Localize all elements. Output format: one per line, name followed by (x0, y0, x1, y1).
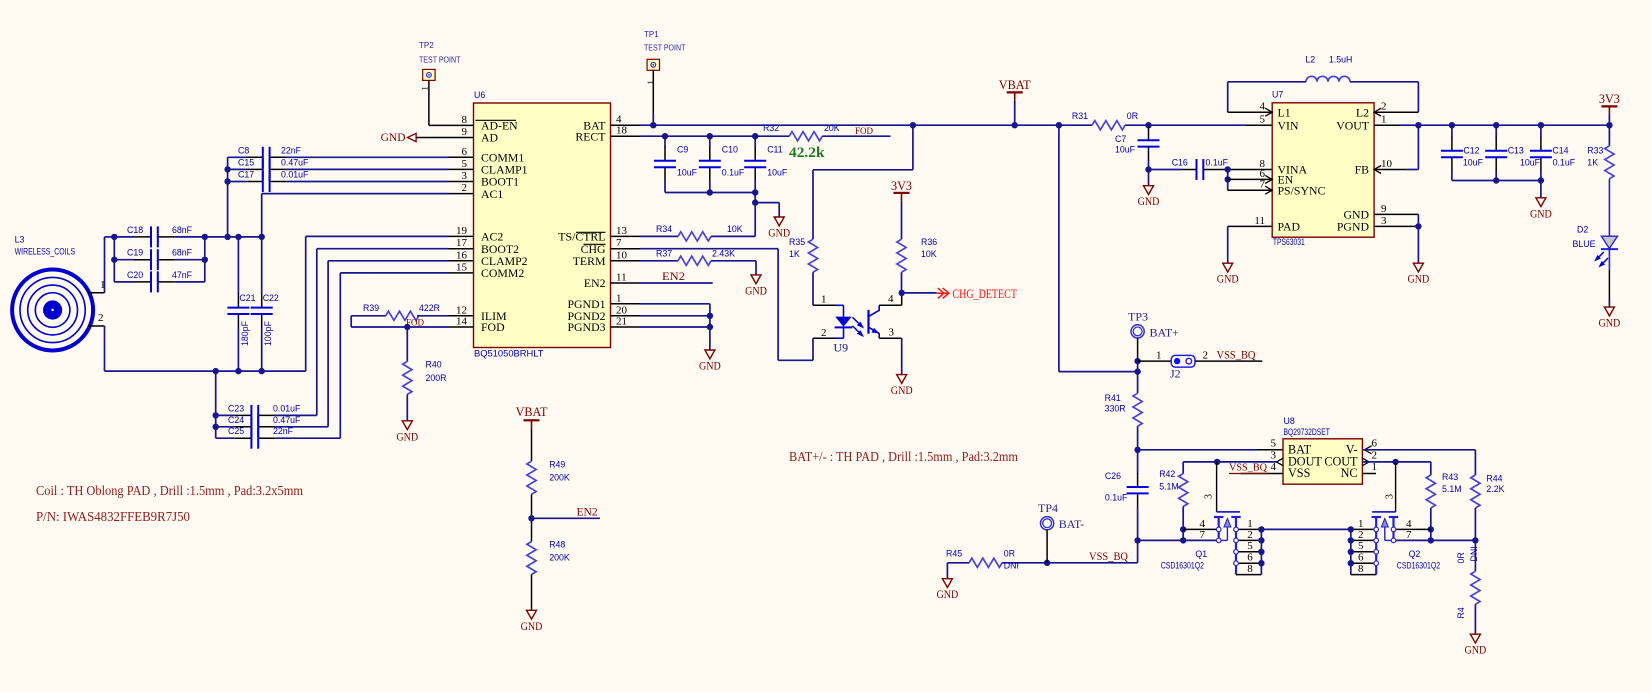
svg-text:BQ29732DSET: BQ29732DSET (1284, 427, 1331, 437)
svg-text:TEST POINT: TEST POINT (644, 44, 685, 53)
svg-text:GND: GND (1217, 272, 1239, 286)
svg-text:U8: U8 (1284, 416, 1295, 426)
svg-text:1.5uH: 1.5uH (1329, 55, 1352, 65)
svg-text:R31: R31 (1072, 111, 1088, 121)
svg-text:200R: 200R (426, 373, 447, 383)
svg-text:8: 8 (1358, 563, 1364, 575)
svg-text:20: 20 (616, 304, 628, 316)
svg-text:180pF: 180pF (240, 320, 250, 346)
svg-text:GND: GND (521, 619, 543, 633)
svg-text:U7: U7 (1272, 90, 1283, 100)
svg-text:R34: R34 (656, 224, 672, 234)
svg-text:21: 21 (616, 316, 627, 328)
svg-text:C11: C11 (767, 145, 783, 155)
svg-text:C14: C14 (1552, 145, 1568, 155)
svg-text:WIRELESS_COILS: WIRELESS_COILS (15, 247, 76, 257)
svg-text:Coil : TH Oblong PAD , Drill :: Coil : TH Oblong PAD , Drill :1.5mm , Pa… (36, 483, 303, 498)
svg-text:TP1: TP1 (644, 30, 659, 39)
svg-text:5: 5 (1358, 540, 1364, 552)
svg-text:R32: R32 (763, 123, 779, 133)
svg-text:RECT: RECT (575, 129, 606, 143)
svg-text:1K: 1K (789, 249, 800, 259)
svg-text:FOD: FOD (855, 126, 874, 136)
svg-text:GND: GND (768, 226, 790, 240)
svg-text:12: 12 (456, 304, 467, 316)
svg-text:200K: 200K (549, 473, 570, 483)
svg-text:DNI: DNI (1469, 546, 1479, 561)
svg-text:GND: GND (381, 132, 406, 144)
svg-text:9: 9 (1381, 203, 1387, 215)
svg-text:10uF: 10uF (677, 168, 698, 178)
svg-text:R39: R39 (363, 303, 379, 313)
svg-text:47nF: 47nF (172, 270, 193, 280)
svg-text:C16: C16 (1172, 158, 1188, 168)
svg-text:TERM: TERM (573, 254, 606, 268)
svg-text:7: 7 (1260, 179, 1266, 191)
svg-text:0R: 0R (1004, 548, 1015, 558)
svg-text:422R: 422R (419, 303, 440, 313)
svg-text:5.1M: 5.1M (1159, 482, 1179, 492)
svg-text:330R: 330R (1105, 404, 1126, 414)
svg-text:GND: GND (1408, 272, 1430, 286)
svg-text:R33: R33 (1587, 146, 1603, 156)
svg-text:L2: L2 (1305, 55, 1315, 65)
svg-text:14: 14 (456, 316, 468, 328)
svg-text:C26: C26 (1105, 471, 1121, 481)
svg-text:R48: R48 (549, 540, 565, 550)
svg-text:U9: U9 (834, 341, 849, 355)
svg-text:GND: GND (699, 359, 721, 373)
svg-text:6: 6 (1358, 552, 1364, 564)
svg-text:EN2: EN2 (662, 271, 685, 283)
svg-text:C17: C17 (238, 170, 254, 180)
svg-text:FOD: FOD (406, 317, 425, 327)
svg-text:Q2: Q2 (1409, 549, 1421, 559)
svg-text:R37: R37 (656, 248, 672, 258)
svg-text:C21: C21 (239, 293, 255, 303)
svg-text:BAT+: BAT+ (1150, 326, 1180, 340)
svg-text:3: 3 (1204, 494, 1215, 499)
svg-text:BLUE: BLUE (1573, 239, 1596, 249)
svg-text:6: 6 (1372, 437, 1378, 449)
svg-text:0.1uF: 0.1uF (722, 168, 745, 178)
svg-text:VSS_BQ: VSS_BQ (1229, 462, 1267, 474)
svg-text:3: 3 (1271, 449, 1277, 461)
svg-text:NC: NC (1341, 466, 1358, 480)
svg-text:C22: C22 (263, 293, 279, 303)
svg-text:10uF: 10uF (1520, 157, 1541, 167)
svg-text:5: 5 (1271, 437, 1277, 449)
svg-text:2: 2 (821, 327, 827, 339)
svg-text:2: 2 (1372, 449, 1378, 461)
svg-text:22nF: 22nF (273, 426, 294, 436)
svg-text:TP3: TP3 (1128, 310, 1148, 324)
svg-text:19: 19 (456, 225, 468, 237)
svg-text:GND: GND (1465, 643, 1487, 657)
svg-text:R36: R36 (921, 237, 937, 247)
svg-text:C7: C7 (1115, 134, 1126, 144)
svg-text:C19: C19 (127, 248, 143, 258)
svg-text:DNI: DNI (1004, 561, 1019, 571)
svg-text:68nF: 68nF (172, 248, 193, 258)
svg-text:2: 2 (462, 182, 468, 194)
svg-text:100pF: 100pF (263, 320, 273, 346)
svg-text:8: 8 (462, 114, 468, 126)
svg-text:10uF: 10uF (1463, 157, 1484, 167)
svg-text:C12: C12 (1463, 145, 1479, 155)
svg-text:P/N: IWAS4832FFEB9R7J50: P/N: IWAS4832FFEB9R7J50 (36, 509, 190, 524)
svg-text:2.2K: 2.2K (1486, 484, 1504, 494)
svg-text:R35: R35 (789, 237, 805, 247)
svg-text:3V3: 3V3 (891, 179, 912, 193)
svg-text:VSS_BQ: VSS_BQ (1217, 349, 1257, 361)
svg-text:3: 3 (1381, 215, 1387, 227)
svg-text:0.1uF: 0.1uF (1553, 157, 1576, 167)
svg-text:3: 3 (1385, 494, 1396, 499)
svg-text:VSS_BQ: VSS_BQ (1089, 551, 1129, 563)
svg-text:TP2: TP2 (419, 41, 434, 50)
svg-text:200K: 200K (549, 553, 570, 563)
svg-text:R4: R4 (1456, 607, 1466, 618)
svg-text:GND: GND (1138, 194, 1160, 208)
svg-text:5: 5 (462, 158, 468, 170)
svg-text:FOD: FOD (481, 320, 505, 334)
svg-text:22nF: 22nF (281, 145, 302, 155)
svg-text:10: 10 (1381, 158, 1393, 170)
svg-text:3V3: 3V3 (1599, 92, 1620, 106)
svg-text:8: 8 (1247, 563, 1253, 575)
svg-text:11: 11 (1254, 215, 1265, 227)
svg-text:R43: R43 (1442, 472, 1458, 482)
svg-text:2: 2 (98, 312, 104, 324)
svg-text:7: 7 (1200, 529, 1206, 541)
svg-text:4: 4 (1260, 101, 1266, 113)
svg-text:1K: 1K (1587, 157, 1598, 167)
svg-text:4: 4 (1271, 461, 1277, 473)
svg-text:U6: U6 (474, 90, 485, 100)
svg-text:R41: R41 (1105, 393, 1121, 403)
svg-text:C20: C20 (127, 270, 143, 280)
svg-text:7: 7 (1406, 529, 1412, 541)
svg-text:GND: GND (937, 587, 959, 601)
svg-text:PAD: PAD (1278, 220, 1301, 234)
svg-text:0.47uF: 0.47uF (273, 415, 301, 425)
svg-text:17: 17 (456, 237, 468, 249)
svg-text:2: 2 (1381, 101, 1387, 113)
svg-text:42.2k: 42.2k (789, 145, 825, 161)
svg-text:C24: C24 (228, 415, 244, 425)
svg-text:COMM2: COMM2 (481, 266, 524, 280)
svg-text:16: 16 (456, 249, 468, 261)
svg-text:TEST POINT: TEST POINT (419, 56, 460, 65)
svg-text:D2: D2 (1577, 225, 1588, 235)
svg-text:6: 6 (462, 146, 468, 158)
svg-text:3: 3 (889, 327, 895, 339)
svg-text:2.43K: 2.43K (712, 248, 735, 258)
svg-text:3: 3 (462, 170, 468, 182)
svg-text:0R: 0R (1127, 111, 1138, 121)
svg-text:BQ51050BRHLT: BQ51050BRHLT (474, 349, 544, 359)
svg-text:L3: L3 (15, 235, 25, 245)
svg-text:PS/SYNC: PS/SYNC (1278, 183, 1326, 197)
svg-text:0.1uF: 0.1uF (1206, 158, 1229, 168)
svg-text:0R: 0R (1456, 552, 1466, 563)
svg-text:68nF: 68nF (172, 225, 193, 235)
svg-text:C9: C9 (677, 145, 688, 155)
svg-text:2: 2 (1203, 349, 1209, 361)
svg-text:9: 9 (462, 126, 468, 138)
svg-text:CHG_DETECT: CHG_DETECT (952, 287, 1017, 301)
svg-text:VOUT: VOUT (1336, 118, 1370, 132)
svg-text:GND: GND (891, 383, 913, 397)
svg-text:1: 1 (1381, 114, 1387, 126)
svg-text:VBAT: VBAT (516, 405, 548, 419)
svg-text:1: 1 (821, 294, 827, 306)
svg-text:AD: AD (481, 131, 499, 145)
svg-text:10K: 10K (727, 224, 743, 234)
svg-text:J2: J2 (1170, 367, 1181, 381)
svg-text:C8: C8 (238, 145, 249, 155)
svg-text:20K: 20K (824, 123, 840, 133)
svg-text:2: 2 (1247, 529, 1253, 541)
svg-text:0.1uF: 0.1uF (1105, 493, 1128, 503)
svg-text:VBAT: VBAT (999, 78, 1031, 92)
svg-text:C23: C23 (228, 403, 244, 413)
svg-text:VIN: VIN (1278, 118, 1299, 132)
svg-text:GND: GND (396, 429, 418, 443)
svg-text:0.01uF: 0.01uF (281, 170, 309, 180)
svg-text:10: 10 (616, 249, 628, 261)
svg-text:5: 5 (1247, 540, 1253, 552)
svg-text:15: 15 (456, 261, 468, 273)
svg-text:PGND: PGND (1337, 220, 1370, 234)
svg-text:R45: R45 (946, 548, 962, 558)
svg-text:10uF: 10uF (767, 168, 788, 178)
svg-text:1: 1 (616, 292, 622, 304)
svg-text:11: 11 (616, 272, 627, 284)
svg-text:R44: R44 (1486, 473, 1502, 483)
svg-text:R49: R49 (549, 460, 565, 470)
svg-text:1: 1 (1372, 461, 1378, 473)
svg-text:1: 1 (419, 86, 429, 90)
svg-text:CSD16301Q2: CSD16301Q2 (1397, 561, 1440, 571)
svg-text:EN2: EN2 (584, 276, 606, 290)
svg-text:C10: C10 (722, 145, 738, 155)
svg-text:R40: R40 (426, 360, 442, 370)
svg-text:PGND3: PGND3 (567, 320, 605, 334)
svg-text:7: 7 (616, 237, 622, 249)
svg-text:5: 5 (1260, 114, 1266, 126)
svg-text:L2: L2 (1356, 105, 1369, 119)
svg-text:18: 18 (616, 125, 628, 137)
svg-text:0.01uF: 0.01uF (273, 403, 301, 413)
svg-text:C18: C18 (127, 225, 143, 235)
svg-text:2: 2 (1358, 529, 1364, 541)
svg-text:VSS: VSS (1288, 466, 1311, 480)
svg-text:0.47uF: 0.47uF (281, 157, 309, 167)
svg-text:4: 4 (888, 293, 894, 305)
svg-text:10K: 10K (921, 249, 937, 259)
svg-text:CSD16301Q2: CSD16301Q2 (1161, 561, 1204, 571)
svg-text:FB: FB (1355, 163, 1370, 177)
svg-text:EN2: EN2 (577, 506, 598, 518)
svg-text:GND: GND (1599, 316, 1621, 330)
svg-text:TP4: TP4 (1038, 501, 1058, 515)
svg-text:TPS63031: TPS63031 (1273, 237, 1305, 247)
svg-text:L1: L1 (1278, 105, 1291, 119)
svg-text:Q1: Q1 (1195, 549, 1207, 559)
svg-text:6: 6 (1247, 552, 1253, 564)
svg-text:10uF: 10uF (1115, 145, 1136, 155)
svg-text:BAT+/- : TH PAD , Drill :1.5mm: BAT+/- : TH PAD , Drill :1.5mm , Pad:3.2… (789, 449, 1018, 464)
svg-text:BAT-: BAT- (1059, 517, 1085, 531)
svg-text:C13: C13 (1508, 145, 1524, 155)
svg-text:1: 1 (1156, 349, 1162, 361)
svg-text:13: 13 (616, 225, 628, 237)
svg-text:AC1: AC1 (481, 187, 503, 201)
svg-text:R42: R42 (1159, 469, 1175, 479)
svg-text:GND: GND (1530, 206, 1552, 220)
svg-text:GND: GND (745, 283, 767, 297)
svg-text:C15: C15 (238, 157, 254, 167)
svg-text:5.1M: 5.1M (1442, 484, 1462, 494)
svg-text:C25: C25 (228, 426, 244, 436)
